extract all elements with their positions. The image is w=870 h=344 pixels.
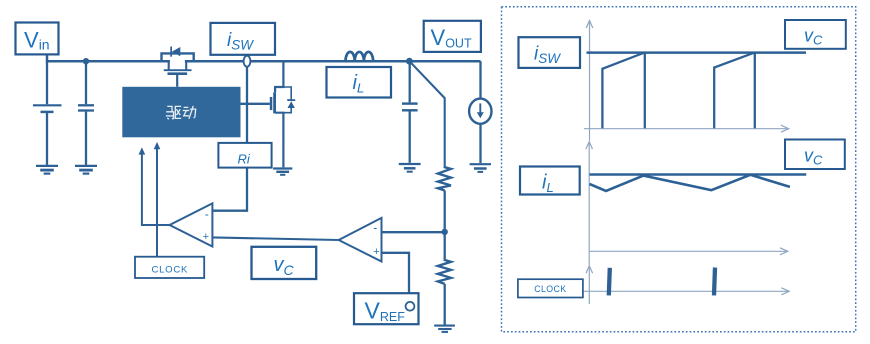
svg-text:CLOCK: CLOCK xyxy=(534,284,566,294)
svg-text:+: + xyxy=(203,231,209,243)
svg-text:-: - xyxy=(205,207,209,221)
svg-text:CLOCK: CLOCK xyxy=(152,264,189,275)
svg-text:-: - xyxy=(373,221,377,235)
svg-text:Ri: Ri xyxy=(238,151,251,166)
svg-text:+: + xyxy=(373,246,379,258)
